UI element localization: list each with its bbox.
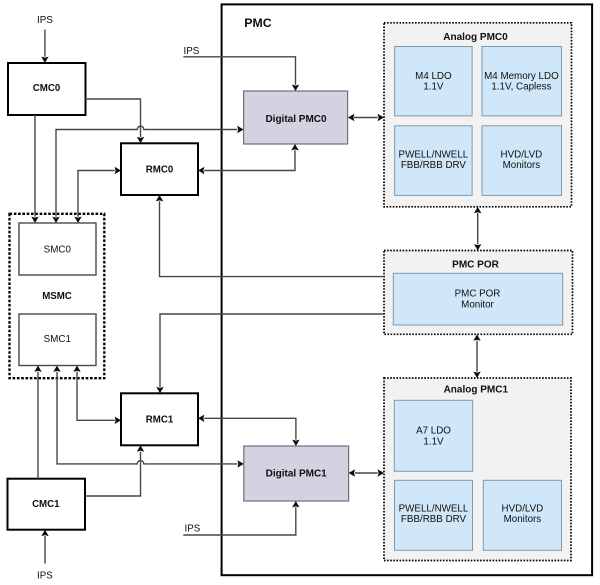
HVD/LVD Monitors block (PMC0) [482, 126, 562, 196]
svg-text:CMC1: CMC1 [32, 499, 60, 510]
wire Digital PMC0 to Analog PMC0 (bidirectional) [348, 114, 384, 121]
svg-text:SMC1: SMC1 [44, 334, 71, 345]
SMC0 block [19, 223, 96, 275]
HVD/LVD Monitors block (PMC1) [483, 480, 561, 550]
svg-text:Analog PMC1: Analog PMC1 [444, 385, 509, 396]
RMC0 block [121, 143, 198, 195]
MSMC group box [10, 214, 105, 378]
svg-text:FBB/RBB DRV: FBB/RBB DRV [401, 160, 467, 171]
svg-text:IPS: IPS [37, 15, 53, 26]
wire IPS to CMC1 bottom [41, 530, 48, 564]
PWELL/NWELL FBB/RBB DRV block (PMC0) [395, 126, 472, 196]
PMC POR Monitor block [393, 273, 562, 325]
svg-text:M4 Memory LDO: M4 Memory LDO [484, 71, 559, 82]
svg-text:PWELL/NWELL: PWELL/NWELL [399, 150, 469, 161]
svg-text:1.1V: 1.1V [423, 436, 444, 447]
Digital PMC1 block [244, 446, 349, 501]
wire CMC0 right to RMC0 top [86, 99, 145, 143]
Analog PMC0 group box [384, 23, 572, 207]
svg-text:FBB/RBB DRV: FBB/RBB DRV [401, 514, 467, 525]
M4 Memory LDO block [482, 47, 562, 116]
svg-text:Analog PMC0: Analog PMC0 [443, 32, 508, 43]
wire SMC0 to Digital PMC0 (bidirectional, hop at x=140.5) [52, 126, 243, 223]
svg-text:1.1V: 1.1V [423, 82, 444, 93]
svg-text:PWELL/NWELL: PWELL/NWELL [399, 503, 469, 514]
svg-text:Monitors: Monitors [503, 160, 541, 171]
wire Analog PMC0 to PMC POR (bidirectional vertical) [474, 207, 481, 251]
svg-text:IPS: IPS [37, 570, 53, 581]
Analog PMC1 group box [384, 378, 571, 561]
wire RMC1 right to Digital PMC1 top (bidirectional) [198, 415, 300, 446]
node IPS (top left) [37, 15, 53, 26]
svg-text:A7 LDO: A7 LDO [416, 426, 451, 437]
M4 LDO block [395, 47, 472, 116]
Digital PMC0 block [244, 91, 348, 144]
A7 LDO block [394, 400, 472, 471]
wire PMC POR left to RMC0 bottom [156, 195, 384, 277]
svg-text:Digital PMC0: Digital PMC0 [265, 114, 327, 125]
CMC0 block [8, 63, 86, 115]
wire SMC1 to RMC1 left (bidirectional) [73, 366, 121, 424]
svg-text:1.1V, Capless: 1.1V, Capless [491, 82, 551, 93]
svg-text:PMC POR: PMC POR [455, 289, 501, 300]
wire IPS to Digital PMC1 bottom [183, 501, 299, 535]
wire CMC0 bottom to SMC0 top [31, 115, 38, 223]
wire SMC1 to Digital PMC1 (bidirectional, hop at x=140.5) [53, 366, 244, 468]
svg-text:SMC0: SMC0 [44, 244, 72, 255]
svg-text:MSMC: MSMC [42, 291, 72, 302]
wire PMC POR left to RMC1 top [156, 314, 384, 393]
svg-text:Digital PMC1: Digital PMC1 [266, 468, 328, 479]
svg-text:PMC: PMC [244, 16, 271, 30]
PWELL/NWELL FBB/RBB DRV block (PMC1) [395, 480, 473, 550]
svg-text:IPS: IPS [184, 46, 200, 57]
wire Digital PMC1 to Analog PMC1 (bidirectional) [349, 469, 384, 476]
wire RMC0 right to Digital PMC0 bottom (bidirectional) [198, 144, 299, 174]
svg-text:RMC0: RMC0 [146, 164, 173, 175]
svg-text:PMC POR: PMC POR [452, 260, 499, 271]
svg-text:IPS: IPS [185, 523, 201, 534]
svg-text:HVD/LVD: HVD/LVD [501, 150, 543, 161]
svg-text:CMC0: CMC0 [33, 83, 60, 94]
wire CMC1 right to RMC1 bottom [85, 445, 144, 496]
svg-text:HVD/LVD: HVD/LVD [502, 503, 544, 514]
wire IPS to CMC0 top [41, 30, 48, 64]
CMC1 block [8, 479, 86, 530]
PMC container box [222, 4, 592, 575]
node IPS (middle, above Digital PMC0) [184, 46, 200, 57]
wire SMC0 to RMC0 left (bidirectional) [74, 167, 121, 223]
wire IPS to Digital PMC0 top [183, 57, 299, 91]
wire CMC1 top to SMC1 bottom [34, 366, 41, 479]
PMC POR group box [384, 251, 573, 335]
RMC1 block [121, 393, 198, 445]
SMC1 block [19, 314, 96, 366]
svg-text:Monitors: Monitors [504, 514, 542, 525]
node IPS (bottom middle) [185, 523, 201, 534]
svg-text:M4 LDO: M4 LDO [415, 71, 452, 82]
node IPS (bottom left) [37, 570, 53, 581]
wire PMC POR to Analog PMC1 (bidirectional vertical) [473, 334, 480, 378]
svg-text:RMC1: RMC1 [146, 415, 174, 426]
svg-text:Monitor: Monitor [461, 299, 494, 310]
